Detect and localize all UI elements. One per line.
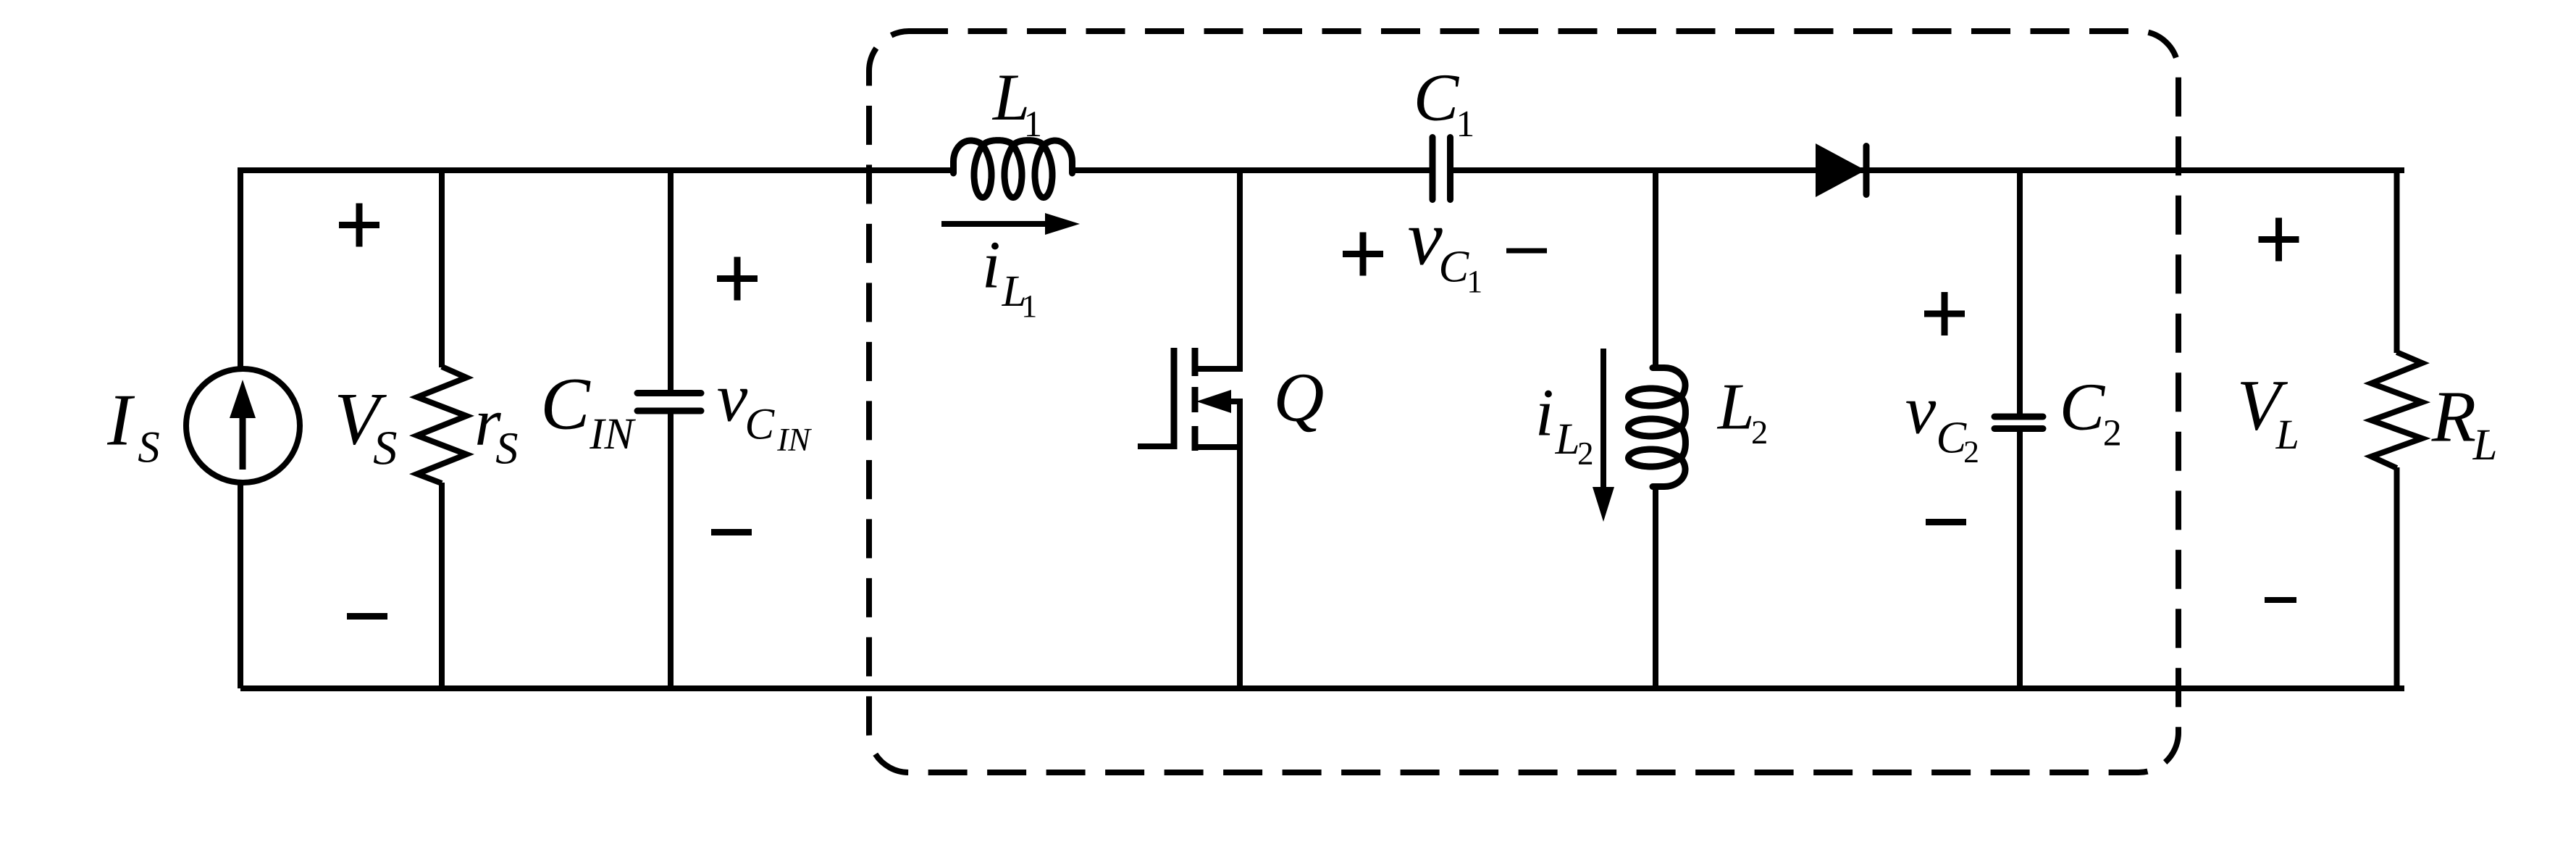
svg-text:C: C — [2060, 370, 2106, 444]
svg-text:2: 2 — [1963, 435, 1979, 470]
svg-text:1: 1 — [1456, 104, 1475, 145]
svg-text:C: C — [540, 363, 591, 445]
svg-text:S: S — [138, 424, 159, 472]
svg-text:S: S — [495, 424, 518, 474]
svg-text:1: 1 — [1024, 104, 1042, 144]
svg-text:1: 1 — [1467, 264, 1482, 299]
svg-text:C: C — [1414, 60, 1460, 135]
svg-text:L: L — [1555, 415, 1580, 464]
svg-text:L: L — [1716, 370, 1755, 443]
svg-text:L: L — [2275, 411, 2299, 458]
svg-text:IN: IN — [589, 410, 636, 459]
svg-text:v: v — [1408, 194, 1443, 281]
svg-text:L: L — [2472, 421, 2498, 470]
svg-text:Q: Q — [1274, 359, 1325, 436]
svg-text:2: 2 — [1751, 414, 1768, 451]
svg-text:IN: IN — [776, 421, 812, 458]
svg-text:I: I — [106, 379, 135, 461]
svg-text:2: 2 — [2103, 413, 2122, 454]
svg-text:R: R — [2431, 375, 2476, 457]
svg-text:v: v — [1905, 371, 1937, 448]
svg-text:2: 2 — [1577, 435, 1594, 472]
svg-text:i: i — [1535, 375, 1554, 450]
svg-text:v: v — [717, 359, 748, 435]
svg-text:C: C — [1439, 242, 1470, 292]
svg-text:1: 1 — [1021, 289, 1037, 324]
svg-text:i: i — [982, 228, 1001, 302]
svg-text:S: S — [373, 422, 397, 475]
svg-text:C: C — [745, 401, 776, 449]
svg-text:C: C — [1937, 413, 1968, 463]
